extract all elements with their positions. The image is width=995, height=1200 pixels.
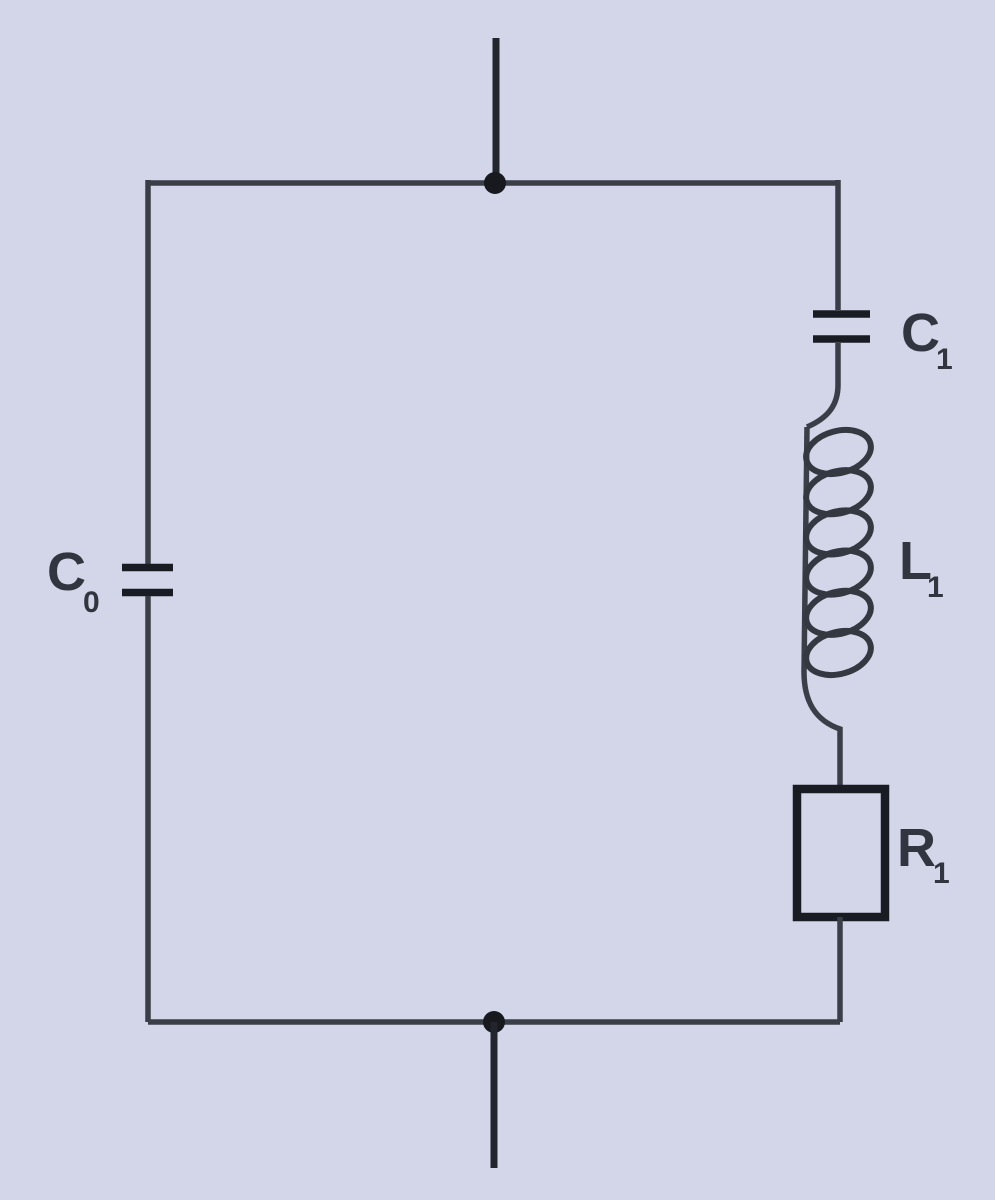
top terminal wire <box>493 38 500 183</box>
wire: right branch upper <box>835 180 841 310</box>
svg-text:1: 1 <box>936 343 953 376</box>
capacitor C1 <box>813 314 870 339</box>
inductor L1 back wire <box>804 427 840 787</box>
svg-text:0: 0 <box>83 586 100 619</box>
svg-text:1: 1 <box>927 571 944 604</box>
node B (bottom junction dot) <box>483 1011 505 1033</box>
svg-text:C: C <box>901 303 940 363</box>
wire: left branch upper <box>145 180 151 564</box>
wire: C1 to L1 lead <box>807 343 838 427</box>
bottom terminal wire <box>491 1022 498 1168</box>
wire: top horizontal <box>148 180 838 186</box>
resistor R1 <box>797 789 885 917</box>
inductor L1 loops <box>801 423 876 682</box>
wire: R1 to bottom <box>837 917 843 1022</box>
svg-text:R: R <box>897 818 936 878</box>
node A (top junction dot) <box>484 172 506 194</box>
wire: bottom horizontal <box>148 1019 840 1025</box>
capacitor C0 <box>122 568 173 593</box>
wire: left branch lower <box>145 596 151 1022</box>
svg-text:1: 1 <box>933 857 950 890</box>
svg-text:C: C <box>47 542 86 602</box>
